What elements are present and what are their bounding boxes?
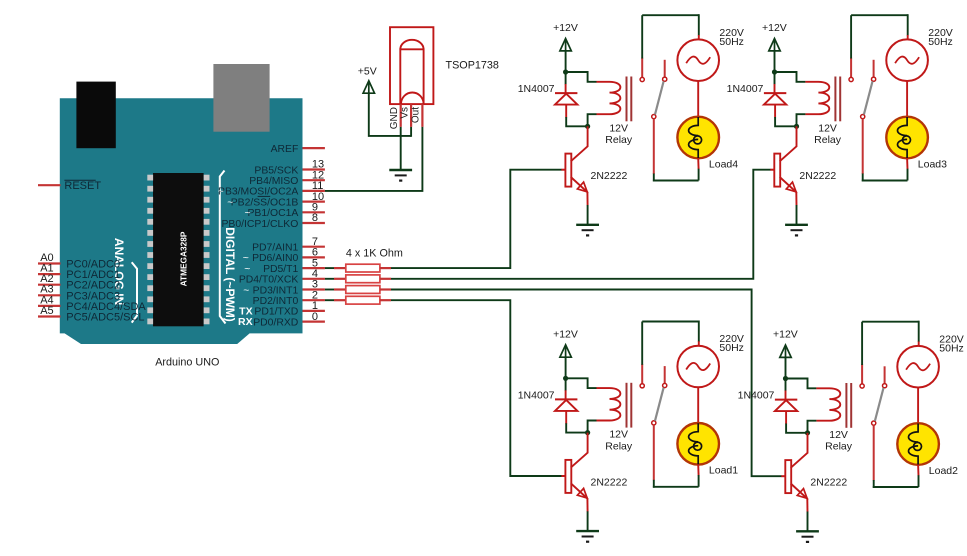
ground Q3: [576, 530, 599, 532]
AC source V3 220V 50Hz: [677, 346, 719, 388]
svg-text:AREF: AREF: [271, 144, 299, 155]
svg-text:PB4/MISO: PB4/MISO: [249, 176, 298, 187]
svg-text:1N4007: 1N4007: [518, 390, 555, 402]
wire load bottom rail block 2: [906, 158, 908, 169]
svg-text:1N4007: 1N4007: [738, 390, 775, 402]
svg-text:+12V: +12V: [762, 22, 787, 34]
wire emitter to ground block 3: [586, 498, 588, 512]
relay driver block 4: [738, 321, 964, 542]
svg-text:PD4/T0/XCK: PD4/T0/XCK: [239, 275, 299, 286]
svg-text:PD5/T1: PD5/T1: [263, 264, 298, 275]
pin 13 PB5/SCK: [303, 168, 325, 170]
resistor R1 1K: [325, 267, 334, 269]
switch contact SW4: [861, 364, 863, 384]
svg-text:PB2/SS/OC1B: PB2/SS/OC1B: [231, 197, 299, 208]
node collector-bottom block 2: [794, 124, 799, 129]
wire R4 to Q3 base: [391, 300, 562, 476]
ground Q4: [796, 530, 819, 532]
wire +12V to node block 4: [785, 357, 787, 378]
lamp load L4 Load2: [897, 423, 939, 465]
node collector-top block 3: [563, 376, 568, 381]
svg-text:Load3: Load3: [918, 158, 947, 170]
TSOP pin 3 Out: [421, 104, 423, 127]
pin 5 PD5/T1: [303, 267, 325, 269]
transistor Q3 2N2222: [587, 433, 589, 454]
relay core block 2: [834, 77, 836, 122]
pin 11 PB3/MOSI/OC2A: [303, 190, 325, 192]
svg-text:RX: RX: [238, 316, 253, 328]
svg-text:PB5/SCK: PB5/SCK: [254, 165, 298, 176]
svg-text:Relay: Relay: [605, 134, 633, 146]
svg-text:1N4007: 1N4007: [518, 83, 555, 95]
switch pole block 4: [875, 388, 884, 421]
svg-text:PB1/OC1A: PB1/OC1A: [247, 208, 298, 219]
pin 12 PB4/MISO: [303, 179, 325, 181]
svg-text:+12V: +12V: [773, 329, 798, 341]
TSOP pin 1 GND: [400, 104, 402, 127]
+12V power arrow block 1: [560, 39, 571, 51]
resistor R2 1K: [325, 278, 334, 280]
relay driver block 3: [518, 321, 744, 542]
resistor R3 1K: [325, 289, 334, 291]
svg-text:Out: Out: [411, 107, 422, 123]
wire +12V to node block 2: [774, 51, 776, 72]
pin A3 PC3/ADC3: [38, 294, 61, 296]
wire diode to node block 1: [566, 117, 587, 126]
wire diode to node block 3: [566, 423, 587, 432]
svg-text:Load4: Load4: [709, 158, 738, 170]
relay core block 1: [626, 77, 628, 122]
wire switch common up block 3: [641, 322, 643, 365]
digital group bracket: [220, 171, 226, 324]
overline SS of PB2: [258, 195, 271, 197]
wire diode to node block 2: [775, 117, 796, 126]
wire emitter to ground block 4: [806, 498, 808, 512]
switch pole block 3: [655, 388, 664, 421]
svg-text:+12V: +12V: [553, 22, 578, 34]
USB connector: [76, 82, 115, 149]
pin RESET: [38, 184, 61, 186]
pin 6 PD6/AIN0: [303, 256, 325, 258]
pin A4 PC4/ADC4/SDA: [38, 305, 61, 307]
node collector-bottom block 4: [805, 430, 810, 435]
svg-text:Relay: Relay: [605, 441, 633, 453]
+12V power arrow block 4: [780, 345, 791, 357]
node collector-top block 2: [772, 69, 777, 74]
wire diode to node block 4: [786, 424, 807, 433]
svg-text:ATMEGA328P: ATMEGA328P: [179, 231, 189, 286]
node collector-bottom block 3: [585, 430, 590, 435]
svg-text:~: ~: [244, 264, 250, 275]
TSOP1738 bullet body: [400, 49, 423, 104]
wire top rail block 2: [851, 14, 908, 16]
pin 0 PD0/RXD: [303, 321, 325, 323]
power jack: [213, 64, 269, 132]
svg-text:50Hz: 50Hz: [939, 342, 964, 354]
wire GND pin to ground: [400, 127, 402, 169]
svg-text:Load2: Load2: [929, 465, 958, 477]
svg-text:Relay: Relay: [825, 441, 853, 453]
wire node to relay coil top block 1: [566, 72, 597, 82]
AC source V4 220V 50Hz: [897, 346, 939, 388]
node collector-bottom block 1: [585, 124, 590, 129]
svg-text:4 x 1K Ohm: 4 x 1K Ohm: [346, 248, 403, 260]
switch contact SW2: [850, 58, 852, 78]
svg-text:TSOP1738: TSOP1738: [446, 60, 499, 72]
svg-text:PD0/RXD: PD0/RXD: [253, 317, 298, 328]
pin 4 PD4/T0/XCK: [303, 278, 325, 280]
node collector-top block 4: [783, 376, 788, 381]
svg-text:PD6/AIN0: PD6/AIN0: [252, 253, 298, 264]
wire switch NO contact down block 2: [862, 119, 864, 174]
svg-text:0: 0: [312, 311, 318, 323]
wire R3 to Q4 base: [391, 290, 782, 477]
wire coil bottom to node block 2: [797, 114, 806, 126]
+12V power arrow block 3: [560, 345, 571, 357]
wire load bottom rail block 3: [697, 464, 699, 475]
wire switch common up block 1: [641, 15, 643, 58]
svg-text:RESET: RESET: [64, 180, 101, 192]
resistor R4 1K: [325, 299, 334, 301]
svg-text:PB0/ICP1/CLKO: PB0/ICP1/CLKO: [221, 219, 298, 230]
transistor Q1 2N2222: [587, 126, 589, 147]
svg-text:12V: 12V: [829, 429, 848, 441]
relay coil RL1 12V: [597, 82, 621, 114]
svg-text:2N2222: 2N2222: [591, 170, 628, 182]
diode D2 1N4007: [774, 72, 776, 85]
svg-text:12V: 12V: [609, 122, 628, 134]
wire load bottom rail block 1: [697, 158, 699, 169]
pin 7 PD7/AIN1: [303, 246, 325, 248]
relay core block 3: [626, 383, 628, 428]
ground Q2: [785, 224, 808, 226]
switch contact SW3: [641, 364, 643, 384]
relay core block 4: [845, 383, 847, 428]
svg-text:+5V: +5V: [358, 66, 377, 78]
wire Vs pin down: [410, 127, 412, 137]
wire node to relay coil top block 3: [566, 378, 597, 388]
wire +5V to Vs: [369, 93, 411, 136]
diode D1 1N4007: [565, 72, 567, 85]
lamp load L2 Load3: [886, 117, 928, 159]
svg-text:Load1: Load1: [709, 465, 738, 477]
transistor Q4 2N2222: [807, 433, 809, 454]
switch pole block 2: [864, 81, 873, 114]
svg-text:2N2222: 2N2222: [591, 477, 628, 489]
AC source V2 220V 50Hz: [886, 39, 928, 81]
svg-text:GND: GND: [389, 107, 400, 129]
wire +12V to node block 1: [565, 51, 567, 72]
Arduino UNO board U1: [60, 98, 303, 344]
svg-text:1N4007: 1N4007: [727, 83, 764, 95]
svg-text:Relay: Relay: [814, 134, 842, 146]
svg-text:~: ~: [218, 187, 224, 198]
svg-text:~: ~: [243, 253, 249, 264]
svg-text:12V: 12V: [609, 429, 628, 441]
lamp load L1 Load4: [677, 117, 719, 159]
relay coil RL3 12V: [597, 388, 621, 420]
switch pole block 1: [655, 81, 664, 114]
wire switch NO contact down block 3: [653, 425, 655, 480]
transistor Q2 2N2222: [796, 126, 798, 147]
+12V power arrow block 2: [769, 39, 780, 51]
svg-text:8: 8: [312, 212, 318, 224]
pin 10 PB2/SS/OC1B: [303, 201, 325, 203]
pin 3 PD3/INT1: [303, 288, 325, 290]
svg-text:2N2222: 2N2222: [810, 477, 847, 489]
lamp load L3 Load1: [677, 423, 719, 465]
wire switch common up block 2: [850, 15, 852, 58]
analog group bracket: [132, 262, 137, 322]
relay driver block 2: [727, 14, 953, 235]
TSOP pin 2 Vs: [410, 104, 412, 127]
svg-text:PD1/TXD: PD1/TXD: [254, 307, 298, 318]
node collector-top block 1: [563, 69, 568, 74]
wire coil bottom to node block 3: [588, 421, 597, 433]
pin A2 PC2/ADC2: [38, 284, 61, 286]
wire emitter to ground block 2: [795, 192, 797, 206]
wire top rail block 3: [642, 321, 699, 323]
pin AREF AREF: [303, 147, 325, 149]
wire load bottom rail block 4: [917, 465, 919, 476]
wire node to relay coil top block 4: [786, 379, 817, 389]
diode D3 1N4007: [565, 378, 567, 391]
svg-text:~: ~: [227, 197, 233, 208]
svg-text:PD2/INT0: PD2/INT0: [253, 296, 299, 307]
svg-text:PD3/INT1: PD3/INT1: [253, 285, 299, 296]
IR receiver TSOP1738 outer box: [390, 27, 433, 104]
pin 8 PB0/ICP1/CLKO: [303, 222, 325, 224]
wire coil bottom to node block 4: [808, 421, 817, 433]
wire switch NO contact down block 4: [873, 425, 875, 480]
svg-text:A5: A5: [40, 305, 53, 317]
wire AC to load block 2: [906, 81, 908, 117]
wire R2 to Q2 base: [391, 170, 771, 279]
pin A0 PC0/ADC0: [38, 262, 61, 264]
wire top rail block 4: [862, 321, 919, 323]
wire Out to Arduino pin 11: [325, 127, 423, 191]
ground TSOP: [389, 169, 412, 171]
wire AC to load block 3: [697, 387, 699, 423]
wire AC to load block 4: [917, 388, 919, 424]
wire coil bottom to node block 1: [588, 114, 597, 126]
wire switch NO contact down block 1: [653, 119, 655, 174]
wire R1 to Q1 base: [391, 170, 562, 268]
svg-text:PC5/ADC5/SCL: PC5/ADC5/SCL: [66, 312, 144, 324]
wire emitter to ground block 1: [586, 192, 588, 206]
AC source V1 220V 50Hz: [677, 39, 719, 81]
svg-text:12V: 12V: [818, 122, 837, 134]
diode D4 1N4007: [785, 379, 787, 392]
relay driver block 1: [518, 14, 744, 235]
pin 2 PD2/INT0: [303, 299, 325, 301]
IC ATMEGA328P body: [153, 173, 204, 326]
svg-text:+12V: +12V: [553, 329, 578, 341]
svg-text:PD7/AIN1: PD7/AIN1: [252, 243, 298, 254]
wire node to relay coil top block 2: [775, 72, 806, 82]
ground Q1: [576, 224, 599, 226]
pin A5 PC5/ADC5/SCL: [38, 315, 61, 317]
svg-text:2N2222: 2N2222: [799, 170, 836, 182]
switch contact SW1: [641, 58, 643, 78]
svg-text:Arduino UNO: Arduino UNO: [155, 356, 219, 368]
wire switch common up block 4: [861, 322, 863, 365]
wire top rail block 1: [642, 14, 699, 16]
svg-text:~: ~: [243, 285, 249, 296]
pin A1 PC1/ADC1: [38, 273, 61, 275]
+5V power arrow: [363, 81, 374, 93]
svg-text:DIGITAL (~PWM): DIGITAL (~PWM): [223, 227, 237, 322]
svg-text:50Hz: 50Hz: [928, 36, 953, 48]
svg-text:~: ~: [245, 208, 251, 219]
pin 1 PD1/TXD: [303, 310, 325, 312]
relay coil RL4 12V: [816, 388, 840, 420]
svg-text:50Hz: 50Hz: [719, 36, 744, 48]
wire AC to load block 1: [697, 81, 699, 117]
pin 9 PB1/OC1A: [303, 211, 325, 213]
IC pins: [147, 175, 209, 325]
svg-text:50Hz: 50Hz: [719, 342, 744, 354]
relay coil RL2 12V: [805, 82, 829, 114]
svg-text:Vs: Vs: [399, 107, 410, 119]
wire +12V to node block 3: [565, 357, 567, 378]
